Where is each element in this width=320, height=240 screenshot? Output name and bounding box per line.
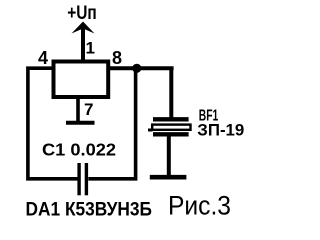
- wire supply arrow shaft (pin 1 lead): [81, 26, 85, 62]
- pin 7 lead: [76, 98, 80, 123]
- op-amp/IC box DA1: [54, 62, 109, 98]
- wire pin4 left + left vertical + bottom-left segment: [28, 68, 78, 179]
- svg-text:C1 0.022: C1 0.022: [42, 139, 116, 159]
- pin 7 terminal bar: [66, 121, 95, 125]
- svg-text:ЗП-19: ЗП-19: [197, 121, 244, 139]
- wire bottom-right segment + right vertical to junction: [88, 68, 135, 179]
- piezo BF1 bottom plate: [153, 132, 189, 136]
- piezo BF1 left tick: [148, 129, 153, 132]
- piezo BF1 end bar: [150, 175, 187, 180]
- piezo BF1 bottom lead: [167, 137, 171, 178]
- power arrow head: [72, 22, 95, 34]
- junction node dot: [132, 64, 141, 73]
- svg-text:DA1 К53ВУН3Б: DA1 К53ВУН3Б: [26, 199, 153, 221]
- piezo BF1 top plate: [153, 117, 189, 121]
- svg-text:7: 7: [84, 100, 93, 119]
- svg-text:8: 8: [112, 48, 122, 68]
- svg-text:1: 1: [86, 39, 95, 58]
- capacitor C1 left plate: [77, 163, 80, 195]
- svg-text:4: 4: [38, 48, 48, 68]
- piezo BF1 element rectangle: [152, 125, 190, 130]
- svg-text:+Uп: +Uп: [67, 3, 97, 24]
- svg-text:Рис.3: Рис.3: [168, 190, 231, 220]
- wire pin8 horizontal + BF1 top lead: [108, 68, 174, 118]
- capacitor C1 right plate: [85, 163, 88, 195]
